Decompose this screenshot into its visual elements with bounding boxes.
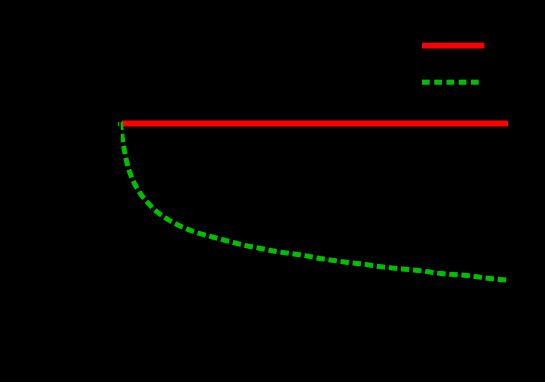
tiny speck left of green curve start (118, 122, 119, 126)
legend sample: green dashed line (422, 80, 479, 85)
green dashed decaying curve (series 2) (121, 122, 507, 280)
red constant line (series 1) (122, 121, 508, 127)
legend sample: red solid line (422, 43, 484, 49)
